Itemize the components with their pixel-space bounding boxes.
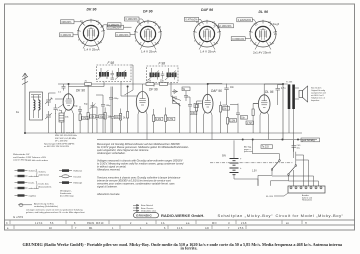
svg-text:1,2k: 1,2k [147, 81, 152, 83]
svg-text:M N: M N [212, 222, 217, 225]
V4 electrodes [261, 85, 268, 108]
svg-text:1,5V: 1,5V [252, 171, 257, 173]
svg-text:0,22M±20%: 0,22M±20% [108, 26, 122, 29]
svg-text:Beim Chassis: Beim Chassis [141, 208, 153, 210]
svg-text:KW: 506 5,0-5,85 MHz: KW: 506 5,0-5,85 MHz [55, 138, 76, 140]
svg-text:Ta 233: Ta 233 [262, 147, 270, 149]
Fi II secondary leads [169, 68, 175, 80]
svg-text:10n: 10n [230, 87, 235, 89]
screen capacitor C18 [276, 85, 281, 95]
svg-text:2: 2 [130, 222, 132, 225]
R2 value label [90, 115, 96, 118]
svg-text:3k: 3k [123, 118, 126, 120]
svg-text:Heizbatterie: Heizbatterie [302, 199, 312, 202]
svg-text:2 A 8: 2 A 8 [241, 222, 247, 225]
legend coax symbol [18, 203, 32, 206]
wire V1 grid to coil [55, 99, 64, 108]
svg-text:F 98: F 98 [108, 61, 115, 65]
svg-text:a: a [7, 227, 9, 230]
dial scale ruler lines [5, 220, 355, 225]
battery B1 90V [230, 159, 239, 166]
svg-text:1M: 1M [108, 117, 111, 119]
svg-text:Draht-: Draht- [29, 182, 35, 185]
oscillator trimmer C8 [90, 102, 96, 110]
svg-text:f: f [250, 40, 251, 43]
DK96 label box 0,22M [60, 33, 74, 37]
dial scale numerals top row [6, 222, 307, 225]
svg-text:Fa,g3: Fa,g3 [273, 23, 280, 26]
Fi I primary leads [101, 68, 107, 79]
wiring to connector strip [258, 140, 319, 186]
tube socket diagram V1 DK96 [60, 8, 122, 52]
svg-text:Beim Netzteil: Beim Netzteil [141, 204, 153, 207]
svg-text:Massewiderst.: Massewiderst. [39, 185, 53, 188]
Fi I pin wires [104, 65, 133, 95]
svg-text:2,2M: 2,2M [156, 119, 161, 121]
svg-text:2x1,4V 25mA: 2x1,4V 25mA [253, 51, 271, 55]
DK96 label leader wire [73, 34, 79, 36]
C16 label box [241, 116, 248, 120]
svg-text:0,1M±20%: 0,1M±20% [117, 34, 130, 37]
DK96 pin ticks [77, 19, 105, 49]
svg-text:MW: 505 510-1620 kHz: MW: 505 510-1620 kHz [55, 135, 77, 137]
resistor R1 [79, 114, 81, 121]
svg-text:Schicht-: Schicht- [29, 170, 37, 173]
coupling capacitor C12 [184, 91, 188, 101]
svg-text:50u: 50u [297, 147, 301, 149]
svg-text:in ferrite.: in ferrite. [181, 246, 198, 251]
legend resistor symbol 5 [18, 194, 25, 196]
resistor R7 [165, 115, 167, 122]
V2 electrodes [139, 84, 146, 105]
resistor R3 [104, 113, 106, 120]
component legend block [13, 153, 157, 214]
svg-text:1 2 3 4: 1 2 3 4 [35, 222, 43, 225]
svg-text:2,2M: 2,2M [230, 120, 235, 122]
wire gang to ground [49, 93, 56, 133]
svg-text:7: 7 [228, 227, 230, 230]
wire V3 anode to top [208, 83, 223, 85]
S1 wires [253, 140, 280, 176]
svg-text:RADIO-WERKE GmbH.: RADIO-WERKE GmbH. [161, 213, 204, 218]
node dot V3 anode top [207, 83, 208, 84]
resistor R12 [227, 118, 229, 125]
IF transformer Fi I F98 dashed enclosure [97, 61, 134, 95]
ground bus wire [25, 132, 302, 134]
V4 cathode wires [260, 112, 269, 140]
C7 value label [114, 115, 120, 118]
wire V4 anode to Tr1 [264, 83, 288, 86]
tuning gang C2 [45, 111, 52, 121]
decoupling capacitor C4 on HT bus [62, 84, 66, 91]
svg-text:a: a [146, 222, 148, 225]
Fi I secondary coil L8 [117, 72, 127, 77]
label box gedr. Schaltung [301, 138, 320, 142]
antenna A1 [22, 73, 28, 85]
svg-text:1,4 V 25mA: 1,4 V 25mA [200, 50, 216, 54]
svg-text:Schaltplan „Micky-Boy“: Schaltplan „Micky-Boy“ [218, 213, 274, 218]
C12 label box [182, 87, 190, 91]
R7 value label [167, 117, 175, 120]
svg-text:Fe: Fe [16, 110, 20, 114]
DK96 inner circle [83, 25, 98, 40]
DF96 electrode symbol [144, 28, 152, 40]
node dot V1 anode [68, 83, 69, 84]
DK96 right label box [108, 23, 122, 27]
R11 label box [223, 107, 230, 111]
DF96 left-low leader [130, 34, 136, 36]
svg-text:s: s [96, 119, 98, 121]
DAF96 right label box [219, 24, 234, 28]
svg-text:1M: 1M [223, 108, 226, 110]
svg-text:C: C [6, 222, 8, 225]
svg-text:f: f [78, 39, 79, 42]
svg-text:20k: 20k [65, 117, 69, 119]
svg-text:1W: 1W [26, 154, 30, 156]
DF96 pin numbers [135, 21, 161, 45]
capacitor C9 [101, 101, 105, 109]
svg-text:+: + [240, 167, 242, 170]
wire C16 to V3 grid chain [223, 104, 259, 106]
svg-text:widerstand: widerstand [39, 173, 50, 176]
DF96 label box far left [107, 25, 124, 29]
DF96 label box left low [116, 33, 131, 37]
legend group brace 2 [36, 181, 37, 189]
svg-text:DF 96: DF 96 [143, 10, 153, 14]
DL96 pin numbers [250, 21, 280, 45]
V1 electrodes [66, 84, 73, 105]
R6 value label [155, 117, 163, 120]
V3 grid side wire [198, 103, 203, 105]
wire oscillator mesh [93, 87, 112, 134]
output transformer Tr1 secondary winding [292, 85, 295, 110]
speaker note text [311, 87, 326, 103]
DAF96 pin ticks [193, 20, 221, 50]
svg-text:4,7M: 4,7M [247, 123, 252, 125]
svg-text:f+: f+ [100, 41, 103, 44]
svg-text:4 1 6: 4 1 6 [177, 227, 183, 230]
svg-text:8: 8 [74, 222, 76, 225]
DK96 electrode symbol [87, 27, 95, 39]
tube V1 DK96 envelope [63, 94, 74, 110]
DL96 pin ticks [249, 20, 277, 50]
HT feed wire down [282, 84, 284, 140]
series resistor R8 on bus [146, 83, 154, 86]
svg-text:1/2W Toleranz ±10%: 1/2W Toleranz ±10% [26, 156, 46, 159]
DL96 label box left low [231, 37, 245, 41]
tube V2 DF96 envelope [136, 92, 148, 113]
measurement note text [244, 146, 253, 154]
svg-text:Abschirmung mit Erd-: Abschirmung mit Erd- [34, 203, 54, 206]
svg-text:1: 1 [112, 227, 114, 230]
svg-text:10M: 10M [191, 113, 196, 115]
R12 label box [230, 119, 237, 123]
switch S2 [289, 166, 296, 174]
svg-text:Keramik: Keramik [74, 175, 83, 178]
battery lead wires [234, 140, 258, 179]
V3 electrodes [205, 84, 212, 108]
coupling capacitor C3 [54, 104, 58, 114]
DL96 label box left top [237, 18, 253, 22]
svg-text:4 A: 4 A [161, 222, 165, 225]
DK96 label box 0,1M [61, 20, 75, 24]
svg-text:1,4 V 25mA: 1,4 V 25mA [141, 50, 157, 54]
svg-text:DAF 96: DAF 96 [211, 89, 222, 93]
Fi I secondary leads [119, 68, 125, 79]
svg-text:50p: 50p [74, 106, 78, 108]
legend capacitor symbol 3 [62, 181, 69, 184]
Fi I capacitor C21 [111, 78, 115, 79]
DF96 label leader [139, 19, 145, 23]
svg-text:Alterations reserved.: Alterations reserved. [96, 168, 121, 172]
legend fine print [26, 209, 85, 215]
DK96 pin numbers [78, 20, 104, 44]
connector terminals [290, 187, 292, 189]
lower filament bus wire [97, 139, 317, 141]
DL96 left-low leader [245, 38, 250, 40]
antenna lead wire [24, 85, 26, 133]
svg-text:Alterazioni riservate.: Alterazioni riservate. [96, 192, 120, 196]
Fi I primary coil L7 [99, 72, 109, 77]
loudspeaker LS1 [299, 91, 303, 98]
svg-text:Änderungen vorbehalten.: Änderungen vorbehalten. [96, 151, 126, 155]
DL96 left-top leader [252, 20, 257, 25]
grid resistor R13 [252, 109, 254, 116]
svg-text:KL.205: KL.205 [266, 196, 274, 198]
DAF96 label box left [185, 17, 199, 21]
svg-text:signal à l'antenne.: signal à l'antenne. [97, 185, 118, 189]
legend group brace 1 [36, 169, 37, 177]
Fi II primary coil L9 [150, 73, 160, 78]
svg-text:DF 96: DF 96 [149, 88, 158, 92]
svg-text:80p: 80p [84, 104, 88, 106]
wire IF1 to V1 anode [69, 86, 105, 88]
series resistor R9 on bus [160, 83, 168, 86]
svg-text:a1: a1 [286, 222, 289, 225]
svg-text:90V: 90V [222, 156, 227, 158]
Tr1 primary lead wires [289, 84, 294, 140]
svg-text:Schicht-: Schicht- [39, 171, 47, 174]
DAF96 outer circle [194, 21, 220, 47]
mini legend arrow row 3 [133, 210, 139, 212]
svg-text:f+: f+ [216, 42, 219, 45]
resistor R2 [87, 113, 89, 120]
svg-text:15k: 15k [160, 81, 165, 83]
grid capacitor C5 [78, 106, 82, 114]
svg-text:0,22M±20%: 0,22M±20% [238, 19, 252, 22]
oscillator coil L3 [59, 113, 64, 122]
R1 value label [82, 116, 88, 119]
capacitor C13 [188, 101, 192, 110]
svg-text:Leitungen und Litzen, soweit s: Leitungen und Litzen, soweit sie nicht z… [26, 209, 82, 212]
S2 wires [289, 152, 296, 181]
Fi I coupling capacitor C20 [111, 71, 115, 79]
svg-text:0,1: 0,1 [58, 92, 62, 94]
svg-text:f: f [194, 40, 195, 43]
legend resistor symbol 3 [18, 181, 25, 183]
Fi II secondary coil L10 [167, 73, 177, 78]
DK96 label box leader wire [74, 22, 85, 26]
HT top bus wire [58, 83, 283, 85]
mini legend arrow row 2 [133, 207, 139, 209]
DAF96 electrode symbol [203, 28, 211, 40]
svg-text:4,7n: 4,7n [281, 88, 286, 90]
resistor R6 [153, 115, 155, 122]
wire Tr1 secondary to speaker [295, 88, 299, 99]
svg-text:Spannungen DK96 DF96 DAF96: Spannungen DK96 DF96 DAF96 [44, 142, 75, 145]
wire IF2 grid [121, 87, 138, 97]
tube V3 DAF96 envelope [202, 94, 213, 113]
svg-text:0,7M: 0,7M [168, 119, 173, 121]
legend capacitor symbol 2 [62, 175, 69, 178]
connector strip KL [288, 186, 325, 193]
DL96 electrode symbol [259, 28, 267, 40]
svg-text:A D: A D [205, 227, 209, 230]
svg-text:f+: f+ [272, 42, 275, 45]
coupling capacitor C16 [236, 109, 240, 119]
svg-text:DL 96: DL 96 [259, 10, 269, 14]
svg-text:verbindung (Schaltdrähte): verbindung (Schaltdrähte) [34, 205, 58, 208]
DAF96 right leader [214, 26, 219, 28]
svg-text:2 5 6: 2 5 6 [238, 227, 244, 230]
svg-text:a a: a a [186, 222, 190, 225]
svg-text:2k: 2k [85, 81, 88, 83]
svg-text:U: U [228, 222, 230, 225]
tube socket diagram V3 DAF96 [185, 8, 234, 54]
svg-text:ZF = 468 kHz: ZF = 468 kHz [55, 141, 68, 143]
tube V4 DL96 envelope [258, 95, 270, 113]
capacitor C7 [111, 112, 115, 122]
svg-text:Widerstände: Widerstände [13, 153, 26, 156]
dial scale numerals bottom row [7, 227, 244, 230]
voltage table text [44, 132, 77, 149]
series resistor R0 on HT bus [85, 83, 92, 86]
DL96 outer circle [250, 21, 276, 47]
svg-text:g3: g3 [158, 26, 161, 29]
mini legend arrow row 1 [133, 204, 139, 206]
Fi II pin wires [154, 83, 181, 101]
svg-text:G u 574: G u 574 [13, 215, 23, 219]
chassis dash-dot boundary [210, 162, 293, 164]
title block GRUNDIG logo box [134, 213, 159, 218]
battery B2 1,5V [230, 168, 239, 175]
svg-text:0M±20%: 0M±20% [62, 21, 73, 24]
svg-text:Draht- bzw.: Draht- bzw. [39, 183, 50, 186]
node dots on filament bus [242, 139, 243, 140]
node dot R5 top [127, 86, 128, 87]
DAF96 left leader [199, 19, 204, 24]
output transformer Tr1 primary winding [288, 85, 291, 110]
svg-text:0,1M±20%: 0,1M±20% [220, 25, 233, 28]
DF96 far-left leader [124, 26, 132, 28]
ferrite aerial L1/L2 [30, 92, 43, 120]
IF transformer Fi II F98 dashed enclosure [147, 61, 182, 100]
svg-text:a= 64V 45V 13V DL96 85V: a= 64V 45V 13V DL96 85V [44, 146, 70, 148]
converter value labels [57, 106, 98, 122]
svg-text:Tr 233: Tr 233 [286, 81, 293, 84]
C6 value label [99, 115, 105, 118]
node dot HT corner [282, 83, 283, 84]
resistor R5 [127, 112, 129, 119]
connector caption text [302, 194, 312, 202]
svg-text:DAF 96: DAF 96 [201, 8, 213, 12]
volume potentiometer P1 [173, 100, 181, 106]
svg-text:M1: M1 [89, 227, 93, 230]
svg-text:Verdrahtete Litze: Verdrahtete Litze [141, 210, 157, 213]
svg-text:1,4 V 25mA: 1,4 V 25mA [84, 48, 100, 52]
padder capacitor C10 [109, 94, 113, 102]
svg-text:130p: 130p [106, 105, 112, 107]
tube socket diagram V2 DF96 [107, 10, 162, 54]
svg-text:und Konden-: und Konden- [13, 157, 26, 159]
P1 wires [173, 96, 180, 134]
svg-text:DK 96: DK 96 [76, 89, 85, 93]
dial scale tick marks [10, 221, 302, 230]
svg-text:GRUNDIG: GRUNDIG [136, 214, 152, 218]
switch S1 [272, 161, 279, 169]
legend resistor symbol 4 [18, 187, 25, 189]
legend heading text [13, 153, 49, 162]
svg-text:M 8 10: M 8 10 [96, 222, 104, 225]
svg-text:F 98: F 98 [159, 61, 166, 65]
R13 label box [246, 121, 254, 125]
svg-text:gehören, sind farbig gekennzei: gehören, sind farbig gekennzeichnet. M =… [26, 211, 85, 214]
svg-text:6: 6 [164, 227, 166, 230]
svg-text:KW 81: KW 81 [87, 222, 95, 225]
legend capacitor symbol 1 [62, 169, 69, 172]
DK96 right label leader [101, 25, 108, 28]
svg-text:(Durchführung): (Durchführung) [60, 196, 74, 198]
Fi II primary leads [152, 68, 158, 80]
svg-text:Rollkond.: Rollkond. [74, 171, 83, 173]
trimmer capacitor C1 [45, 96, 52, 106]
V3 label box left [194, 104, 199, 108]
svg-text:5 6: 5 6 [50, 222, 54, 225]
svg-text:2h: 2h [274, 33, 277, 36]
svg-text:1/4W falls nicht anders: 1/4W falls nicht anders [26, 159, 49, 162]
legend resistor symbol 2 [18, 175, 25, 177]
Fi II coupling capacitor C24 [161, 71, 165, 79]
svg-text:0,15M±2%: 0,15M±2% [232, 38, 245, 41]
resistor R4 [120, 114, 122, 121]
DF96 pin ticks [134, 20, 162, 50]
svg-text:430p: 430p [114, 98, 120, 100]
resistor R11 [220, 106, 222, 113]
V1 cathode wires [64, 110, 74, 134]
svg-text:f: f [135, 40, 136, 43]
svg-text:DK 96: DK 96 [87, 8, 97, 12]
node dot R2 top [87, 83, 88, 84]
capacitor C6 [95, 111, 99, 122]
wire L3 leads [61, 110, 63, 133]
svg-text:Impedanz: Impedanz [311, 100, 319, 102]
DF96 outer circle [135, 21, 161, 47]
svg-text:gedr.Schaltg.: gedr.Schaltg. [302, 139, 316, 142]
KL.205 leader arrow [274, 193, 288, 196]
legend note text [60, 190, 74, 198]
V2 cathode wires [138, 110, 147, 140]
svg-text:0,1M±20%: 0,1M±20% [126, 18, 139, 21]
V3 cathode wires [204, 112, 213, 140]
legend resistor symbol 1 [18, 169, 25, 171]
svg-text:0,2M±2%: 0,2M±2% [61, 34, 72, 37]
measuring notes text block [96, 142, 189, 196]
DK96 outer circle [78, 20, 104, 46]
electrolytic capacitor C49 [292, 140, 297, 151]
svg-text:regelbar: regelbar [29, 195, 37, 198]
svg-text:DL 96: DL 96 [265, 90, 274, 94]
node dot antenna-ground [24, 132, 25, 133]
